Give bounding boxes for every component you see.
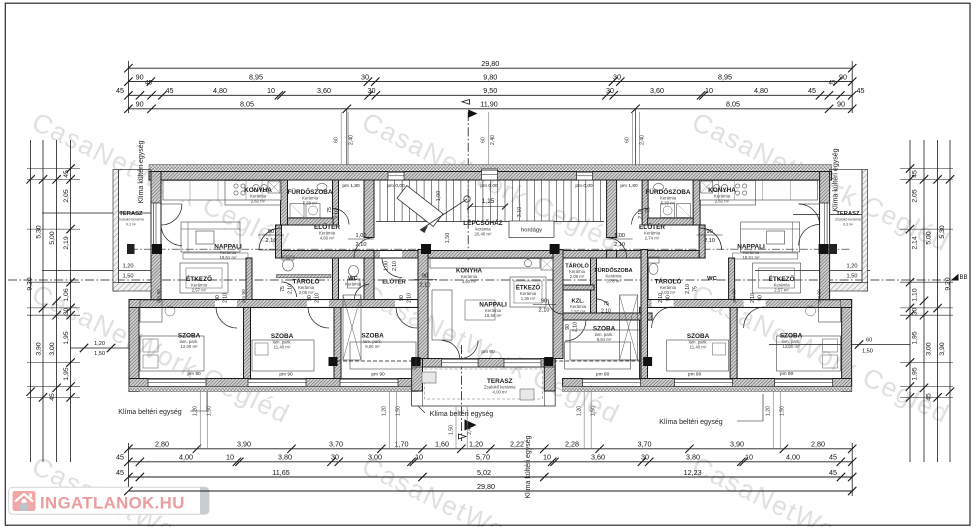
middle band north wall left apt	[282, 251, 432, 259]
svg-text:1,95: 1,95	[912, 331, 919, 344]
svg-text:pm 90: pm 90	[156, 289, 162, 303]
svg-text:30: 30	[641, 453, 649, 462]
svg-text:3,00: 3,00	[49, 342, 56, 355]
right terrace outline	[830, 170, 862, 283]
stair dim 1,15	[470, 206, 505, 208]
svg-text:2,10: 2,10	[266, 238, 277, 244]
top dimension row 45|4,80|10|3,60|30|9,50|30|3,60|10|4,80|45	[128, 94, 852, 96]
svg-text:9,20: 9,20	[27, 277, 34, 290]
svg-text:10: 10	[543, 453, 551, 462]
svg-text:2,10: 2,10	[288, 284, 294, 294]
svg-text:5,00: 5,00	[926, 231, 933, 244]
bathroom west wall left apt	[281, 180, 288, 225]
hall door arc right apt	[700, 228, 722, 250]
svg-text:Klíma beltéri egység: Klíma beltéri egység	[118, 409, 182, 416]
svg-text:2,40: 2,40	[490, 135, 496, 145]
hall west wall left apt	[276, 225, 282, 258]
ac outdoor units	[127, 244, 135, 254]
bottom windows bedrooms	[148, 379, 206, 387]
beds right apartment	[777, 336, 841, 371]
top dimension row 90|8,95|30|9,80|30|8,95|90	[128, 81, 852, 83]
svg-text:60: 60	[480, 137, 486, 143]
svg-text:1,20: 1,20	[577, 406, 583, 416]
svg-text:90: 90	[136, 100, 144, 109]
center bath door arc	[597, 299, 609, 306]
top dimension row 90|8,05|11,90|8,05|90	[128, 108, 852, 110]
svg-text:30: 30	[368, 86, 376, 95]
top wall windows	[388, 172, 404, 181]
watermark CasaNetWork Cegled tiles	[27, 106, 954, 527]
svg-text:1,95: 1,95	[912, 367, 919, 380]
svg-text:3,78 m²: 3,78 m²	[606, 279, 621, 284]
ac indoor dashed boxes	[422, 372, 436, 383]
svg-text:3,70: 3,70	[329, 440, 343, 449]
svg-text:5,70: 5,70	[476, 453, 490, 462]
svg-text:90: 90	[706, 229, 712, 235]
center terrace door arcs	[442, 341, 460, 359]
sofa right apartment	[741, 222, 800, 252]
svg-text:2,10: 2,10	[223, 293, 229, 303]
bed szoba3	[350, 342, 416, 369]
svg-text:30: 30	[606, 86, 614, 95]
svg-text:pm 90: pm 90	[481, 349, 495, 355]
svg-text:1,20: 1,20	[123, 264, 134, 270]
bottom dimension row 45|4,00|10|3,80|30|3,00|10|5,70|10|3,60|30|3,80|10|4,00|45	[128, 461, 852, 463]
svg-text:45: 45	[829, 453, 837, 462]
svg-text:Klíma kültéri egység: Klíma kültéri egység	[525, 435, 532, 498]
svg-text:90: 90	[307, 295, 313, 301]
svg-text:90: 90	[758, 295, 764, 301]
stair west wall	[364, 180, 374, 238]
svg-text:BB: BB	[959, 275, 967, 281]
svg-text:WC: WC	[707, 276, 717, 282]
sofa left apartment	[181, 222, 240, 252]
left vertical dimension chains	[70, 140, 72, 462]
bedroom north wall left	[129, 300, 418, 308]
svg-text:2,10: 2,10	[539, 308, 550, 314]
desk szoba1	[140, 300, 162, 322]
svg-text:5,30: 5,30	[36, 225, 43, 238]
svg-text:1,00: 1,00	[436, 191, 442, 202]
terrace leader line left	[42, 212, 155, 214]
svg-text:hordágy: hordágy	[521, 228, 542, 234]
svg-text:pm 90: pm 90	[596, 372, 610, 378]
svg-text:pm 90: pm 90	[279, 372, 293, 378]
svg-text:3,90: 3,90	[939, 342, 946, 355]
svg-text:45: 45	[49, 393, 56, 401]
center bottom window	[504, 359, 541, 368]
window dim line right wall	[755, 270, 870, 272]
svg-text:12,00 m²: 12,00 m²	[181, 344, 199, 349]
right step wall	[820, 300, 852, 308]
svg-text:90: 90	[268, 229, 274, 235]
svg-text:pm 1,80: pm 1,80	[342, 183, 360, 189]
svg-text:10: 10	[745, 453, 753, 462]
right terrace bottom wall	[830, 283, 868, 292]
svg-text:2,10: 2,10	[315, 293, 321, 303]
svg-text:45: 45	[116, 468, 124, 477]
svg-text:2,10: 2,10	[392, 261, 398, 271]
svg-text:2,10: 2,10	[704, 238, 715, 244]
svg-text:8,95: 8,95	[249, 72, 263, 81]
coffee table left apt	[196, 231, 214, 244]
svg-text:4,00: 4,00	[786, 453, 800, 462]
svg-text:9,3 m²: 9,3 m²	[843, 223, 854, 227]
svg-text:1,20: 1,20	[847, 264, 858, 270]
taroló divider wall	[277, 275, 332, 278]
svg-text:3,90: 3,90	[36, 342, 43, 355]
svg-text:pm 0,00: pm 0,00	[575, 183, 593, 189]
wc toilet right apt	[648, 257, 659, 263]
svg-text:45: 45	[912, 170, 919, 178]
bedroom divider wall 2	[334, 308, 341, 379]
hordagy box	[509, 221, 554, 238]
svg-text:Kerámia: Kerámia	[345, 282, 362, 287]
center terrace side wall left	[412, 359, 423, 392]
svg-text:45: 45	[145, 80, 152, 87]
center apartment bottom wall	[423, 359, 545, 368]
svg-text:4,66 m²: 4,66 m²	[320, 236, 335, 241]
svg-text:30: 30	[331, 453, 339, 462]
svg-text:pm 1,80: pm 1,80	[620, 183, 638, 189]
svg-text:2,10: 2,10	[407, 293, 413, 303]
column markers black	[152, 244, 162, 254]
svg-text:3,60: 3,60	[650, 86, 664, 95]
wc toilet upper taroló block	[283, 259, 294, 271]
tv bench left apt	[183, 253, 248, 259]
left terrace bottom wall	[113, 283, 151, 292]
svg-text:2,10: 2,10	[601, 309, 611, 315]
svg-text:pm 90: pm 90	[241, 289, 247, 303]
svg-text:4,80: 4,80	[754, 86, 768, 95]
terrace double door arcs left	[161, 204, 182, 225]
svg-text:5,39 m²: 5,39 m²	[661, 201, 676, 206]
bedroom north wall right	[648, 300, 852, 308]
svg-text:1,95: 1,95	[63, 367, 70, 380]
extension lines from top dims to wall	[346, 109, 348, 168]
svg-text:45: 45	[116, 86, 124, 95]
svg-text:90: 90	[837, 100, 845, 109]
bedroom door gaps	[215, 300, 237, 307]
left step wall	[129, 300, 161, 308]
svg-text:20,40 m²: 20,40 m²	[475, 232, 493, 237]
center entry door gap	[380, 251, 402, 258]
wardrobe szoba4 mirror	[620, 295, 638, 360]
section line upper apartments dash-dot	[130, 248, 431, 250]
kzl door arc	[548, 299, 563, 314]
svg-text:10: 10	[705, 86, 713, 95]
svg-text:Klíma beltéri egység: Klíma beltéri egység	[430, 411, 494, 418]
svg-text:90: 90	[136, 72, 144, 81]
coffee table right apt	[767, 231, 785, 244]
svg-text:4,00: 4,00	[179, 453, 193, 462]
svg-text:45: 45	[829, 80, 836, 87]
center terrace door	[442, 359, 478, 368]
svg-text:90: 90	[541, 299, 547, 305]
dining table left apt	[180, 263, 228, 293]
svg-text:60: 60	[334, 137, 340, 143]
svg-text:1,15: 1,15	[482, 198, 495, 205]
svg-text:INGATLANOK.HU: INGATLANOK.HU	[40, 494, 185, 513]
svg-text:4,80: 4,80	[213, 86, 227, 95]
szoba4 door arc	[565, 320, 586, 341]
svg-text:2,28: 2,28	[565, 440, 579, 449]
left terrace outline	[119, 170, 151, 283]
bathroom door arc left apt	[333, 209, 349, 225]
svg-text:45: 45	[166, 86, 174, 95]
svg-text:29,80: 29,80	[481, 59, 499, 68]
svg-text:pm 90: pm 90	[732, 289, 738, 303]
svg-text:5,00: 5,00	[49, 231, 56, 244]
svg-text:TERASZ: TERASZ	[119, 211, 143, 217]
svg-text:1,60: 1,60	[435, 440, 449, 449]
right lower exterior wall	[842, 300, 852, 392]
stair direction rect	[397, 186, 443, 227]
svg-text:1,50: 1,50	[123, 274, 134, 280]
svg-text:3,90: 3,90	[237, 440, 251, 449]
svg-text:Zsalukő kerámia: Zsalukő kerámia	[118, 218, 144, 222]
right terrace outer wall	[862, 170, 868, 292]
svg-text:3,00: 3,00	[368, 453, 382, 462]
svg-text:3,80: 3,80	[278, 453, 292, 462]
svg-text:90: 90	[565, 324, 571, 330]
svg-text:1,50: 1,50	[780, 406, 786, 416]
svg-text:2,82 m²: 2,82 m²	[251, 199, 266, 204]
svg-text:1,50: 1,50	[396, 406, 402, 416]
svg-text:1,06: 1,06	[63, 288, 70, 301]
svg-text:29,80: 29,80	[477, 482, 495, 491]
svg-text:2,05: 2,05	[63, 189, 70, 202]
svg-text:3,80: 3,80	[686, 453, 700, 462]
svg-text:2,10: 2,10	[658, 293, 664, 303]
svg-text:90: 90	[666, 295, 672, 301]
svg-text:60: 60	[866, 338, 872, 344]
center apartment furniture	[430, 259, 540, 269]
svg-text:1,36 m²: 1,36 m²	[521, 296, 536, 301]
svg-text:2,74 m²: 2,74 m²	[645, 236, 660, 241]
svg-text:18,55 m²: 18,55 m²	[485, 313, 503, 318]
svg-text:8,94 m²: 8,94 m²	[597, 337, 612, 342]
svg-text:pm 90: pm 90	[817, 289, 823, 303]
dim 1,20 1,50 lower left	[70, 347, 129, 349]
svg-text:18,61 m²: 18,61 m²	[220, 255, 238, 260]
svg-text:8,95: 8,95	[718, 72, 732, 81]
svg-text:9,3 m²: 9,3 m²	[126, 223, 137, 227]
bathroom fixtures right apt	[654, 183, 664, 190]
right vertical dimension chains	[909, 140, 911, 462]
svg-text:10: 10	[415, 453, 423, 462]
svg-text:pm 90: pm 90	[371, 372, 385, 378]
hall north wall left apt	[288, 218, 334, 225]
ingatlanok.hu logo	[9, 487, 209, 514]
svg-text:1,00: 1,00	[384, 261, 390, 271]
svg-text:75: 75	[603, 301, 609, 307]
svg-text:90: 90	[422, 274, 428, 280]
center apartment east wall	[553, 250, 563, 359]
svg-text:2,05 m²: 2,05 m²	[299, 290, 314, 295]
svg-text:1,10: 1,10	[912, 288, 919, 301]
svg-text:5,39 m²: 5,39 m²	[303, 201, 318, 206]
svg-text:75: 75	[693, 286, 699, 292]
svg-text:2,10: 2,10	[356, 242, 367, 248]
svg-text:45: 45	[829, 468, 837, 477]
svg-text:2,10: 2,10	[614, 242, 625, 248]
section line A vertical dash-dot	[467, 112, 469, 262]
svg-text:2,80: 2,80	[811, 440, 825, 449]
svg-text:1,50: 1,50	[448, 425, 454, 435]
svg-text:12,00 m²: 12,00 m²	[783, 344, 801, 349]
center szoba bed	[570, 330, 640, 360]
svg-text:3,60 m²: 3,60 m²	[462, 279, 477, 284]
svg-text:9,20: 9,20	[945, 277, 952, 290]
terrace door gap left wall	[152, 203, 161, 246]
terrace leader line right	[793, 214, 866, 216]
svg-text:30: 30	[63, 308, 70, 316]
section marker A bottom	[465, 420, 477, 431]
svg-text:4,00 m²: 4,00 m²	[493, 390, 508, 395]
bed szoba1	[140, 336, 204, 371]
svg-text:18,61 m²: 18,61 m²	[743, 255, 761, 260]
svg-text:45: 45	[63, 170, 70, 178]
svg-text:2,10: 2,10	[638, 209, 644, 219]
bedroom divider wall 1	[244, 308, 251, 379]
terrace door gap right wall	[820, 203, 829, 246]
svg-text:1,50: 1,50	[847, 274, 858, 280]
top exterior wall insulation	[149, 165, 832, 172]
terrace double door arcs right	[799, 204, 820, 225]
svg-text:2,05: 2,05	[912, 189, 919, 202]
dim line over logo	[128, 490, 300, 492]
svg-text:3,60: 3,60	[591, 453, 605, 462]
svg-text:9,80: 9,80	[483, 72, 497, 81]
bottom dimension row 29,80	[128, 490, 852, 492]
svg-text:45: 45	[926, 393, 933, 401]
svg-text:1,57 m²: 1,57 m²	[571, 309, 586, 314]
bedroom door arcs	[216, 307, 237, 328]
szoba4 door gap	[565, 314, 587, 320]
taroló door arc left apt	[282, 282, 297, 297]
svg-text:8,05: 8,05	[726, 100, 740, 109]
wardrobe szoba3	[343, 295, 361, 360]
svg-text:1,50: 1,50	[445, 233, 451, 244]
svg-text:1,50: 1,50	[862, 349, 873, 355]
svg-text:9,50: 9,50	[483, 86, 497, 95]
wc door arc left apt	[355, 285, 370, 300]
svg-text:30: 30	[361, 72, 369, 81]
dining table right apt	[753, 263, 801, 293]
svg-text:1,20: 1,20	[94, 341, 105, 347]
svg-text:Klíma kültéri egység: Klíma kültéri egység	[833, 148, 840, 211]
svg-text:3,10: 3,10	[517, 207, 523, 218]
svg-text:8,05: 8,05	[240, 100, 254, 109]
left terrace outer wall	[113, 170, 119, 292]
shaft wall left apt	[333, 180, 339, 225]
storage-wc divider wall left apt	[333, 258, 339, 308]
svg-text:2,10: 2,10	[335, 209, 341, 219]
svg-text:1,95: 1,95	[63, 331, 70, 344]
beam dashed lines bedrooms	[337, 360, 412, 362]
bathroom door arc right apt	[632, 209, 648, 225]
bottom wall insulation right	[563, 387, 852, 392]
svg-text:Zsalukő kerámia: Zsalukő kerámia	[835, 218, 861, 222]
svg-text:ELŐTÉR: ELŐTÉR	[382, 278, 406, 286]
bottom dimension row 2,80|3,90|3,70|1,70|1,60|1,20|2,22|2,28|3,70|3,90|2,80	[128, 448, 852, 450]
kitchen counter right apt	[700, 181, 818, 201]
svg-text:1,00: 1,00	[356, 233, 367, 239]
svg-text:2,40: 2,40	[467, 425, 473, 435]
svg-text:11,40 m²: 11,40 m²	[274, 345, 291, 350]
stair door arc right	[607, 238, 627, 258]
svg-text:90: 90	[399, 295, 405, 301]
bottom exterior wall left section	[129, 379, 418, 387]
bottom wall insulation left	[129, 387, 418, 392]
svg-text:12,23: 12,23	[684, 468, 702, 477]
svg-text:11,90: 11,90	[480, 100, 497, 109]
svg-text:2,40: 2,40	[349, 135, 355, 145]
svg-text:45: 45	[116, 453, 124, 462]
bottom exterior wall right section	[563, 379, 852, 387]
svg-text:10: 10	[267, 86, 275, 95]
svg-text:60: 60	[625, 137, 631, 143]
hall door arc left apt	[259, 228, 281, 250]
svg-text:11,40 m²: 11,40 m²	[690, 345, 707, 350]
section line B-B horizontal dash-dot	[8, 279, 948, 281]
svg-text:pm 90: pm 90	[780, 371, 794, 377]
svg-text:2,08 m²: 2,08 m²	[570, 274, 585, 279]
svg-text:3,00: 3,00	[926, 342, 933, 355]
svg-text:2,40: 2,40	[640, 135, 646, 145]
svg-text:45: 45	[808, 86, 816, 95]
svg-text:Klíma kültéri egység: Klíma kültéri egység	[138, 140, 145, 203]
svg-text:2,57 m²: 2,57 m²	[192, 288, 207, 293]
center apartment west wall	[418, 250, 428, 359]
stair treads	[379, 181, 381, 222]
svg-text:5,30: 5,30	[939, 225, 946, 238]
svg-text:2,82 m²: 2,82 m²	[715, 199, 730, 204]
svg-text:90: 90	[215, 295, 221, 301]
svg-text:2,80: 2,80	[155, 440, 169, 449]
stair south wall	[374, 251, 418, 259]
svg-text:75: 75	[327, 207, 333, 213]
bottom dimension row 45|11,65|5,02|12,23|45	[128, 476, 852, 478]
svg-text:3,60: 3,60	[317, 86, 331, 95]
svg-text:3,90: 3,90	[730, 440, 744, 449]
window dim line left wall	[42, 270, 161, 272]
center terrace side wall right	[544, 359, 555, 392]
svg-text:11,65: 11,65	[272, 468, 289, 477]
svg-text:1,20: 1,20	[469, 440, 483, 449]
section marker A top	[468, 110, 477, 118]
svg-text:2,10: 2,10	[685, 284, 691, 294]
svg-text:2,57 m²: 2,57 m²	[774, 288, 789, 293]
svg-text:90: 90	[839, 72, 847, 81]
top dimension row 29,80	[128, 67, 852, 69]
kitchen counter left apt	[163, 181, 281, 201]
svg-text:pm 0,00: pm 0,00	[387, 183, 405, 189]
svg-text:9,00 m²: 9,00 m²	[365, 344, 380, 349]
left lower exterior wall	[129, 300, 139, 392]
stair east wall	[607, 180, 617, 238]
svg-text:pm 90: pm 90	[187, 371, 201, 377]
stair door arc left	[354, 238, 374, 258]
svg-text:3,70: 3,70	[638, 440, 652, 449]
left exterior wall upper	[151, 172, 161, 308]
dim 60 1,50 lower right	[769, 344, 910, 346]
svg-text:2,22: 2,22	[510, 440, 524, 449]
svg-text:1,50: 1,50	[591, 406, 597, 416]
svg-text:1,20: 1,20	[766, 406, 772, 416]
center terrace outline	[412, 367, 556, 406]
